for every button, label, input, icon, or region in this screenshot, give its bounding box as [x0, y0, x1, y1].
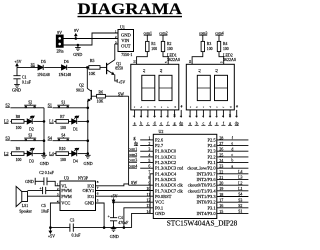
wire U2 pin21 net L3: [217, 176, 249, 180]
wire U2 pin27 net e: [217, 142, 249, 146]
IC U3 NY3P: [57, 176, 99, 211]
wire left matrix bus: [43, 108, 45, 156]
svg-text:L3: L3: [238, 176, 242, 180]
svg-text:GND: GND: [85, 201, 95, 206]
svg-text:GND: GND: [40, 161, 49, 166]
wire J1 pin2 to U1 GND: [63, 33, 118, 45]
svg-text:GND: GND: [12, 88, 21, 93]
svg-text:L1: L1: [238, 187, 242, 191]
wire bottom ground rail: [50, 227, 131, 229]
svg-text:PWM: PWM: [61, 188, 72, 193]
wire Q2 emitter down (right matrix bus): [87, 101, 89, 155]
resistor R10 100: [54, 147, 68, 162]
wire U2 pin16 net S2: [217, 204, 249, 208]
svg-text:6: 6: [97, 192, 99, 196]
svg-text:d: d: [209, 121, 211, 125]
svg-text:9013: 9013: [76, 88, 84, 92]
svg-text:d: d: [154, 121, 156, 125]
svg-text:f: f: [167, 107, 170, 108]
svg-text:L4: L4: [238, 170, 242, 174]
svg-text:U2: U2: [159, 129, 164, 134]
transistor Q2 9013: [76, 84, 96, 102]
IC U2 STC15W404AS: [146, 129, 223, 219]
svg-text:R6: R6: [99, 90, 104, 94]
ground left matrix bus: [40, 155, 49, 166]
svg-text:P2.1: P2.1: [207, 160, 215, 165]
switch S1: [57, 100, 69, 107]
wire U2 pin19 net L1: [217, 187, 249, 191]
svg-text:C5: C5: [41, 204, 46, 208]
svg-text:INT0/P3.2: INT0/P3.2: [196, 200, 215, 205]
svg-text:com3: com3: [199, 31, 208, 35]
resistor R1 100: [146, 35, 157, 51]
svg-text:PWM: PWM: [61, 194, 72, 199]
svg-text:C3: C3: [70, 218, 75, 222]
power flag 9V node: [74, 28, 79, 40]
svg-text:14: 14: [146, 209, 150, 214]
capacitor C2 0.1uF: [25, 171, 60, 186]
svg-text:8550: 8550: [115, 67, 123, 71]
svg-text:1: 1: [115, 30, 117, 34]
resistor R2 100: [161, 35, 172, 51]
node L4 net label: [49, 151, 55, 156]
svg-text:C2 0.1uF: C2 0.1uF: [39, 171, 54, 175]
svg-text:S1: S1: [31, 62, 35, 67]
wire S1 row: [53, 107, 88, 109]
svg-text:P2.4: P2.4: [207, 143, 216, 148]
ground at C4: [110, 228, 119, 239]
svg-text:10K: 10K: [97, 99, 104, 103]
resistor R5 10K: [89, 59, 100, 76]
wire U2 pin28 net f: [217, 136, 249, 140]
svg-text:1N4148: 1N4148: [37, 73, 50, 77]
svg-text:100: 100: [151, 47, 157, 51]
svg-text:2Pin: 2Pin: [57, 50, 64, 54]
svg-text:3622AS: 3622AS: [223, 57, 236, 62]
svg-text:L2: L2: [238, 181, 242, 185]
switch S4: [57, 133, 69, 140]
resistor R7 100: [54, 115, 68, 130]
svg-text:GND: GND: [73, 52, 82, 57]
svg-text:D1: D1: [73, 127, 78, 131]
ground below C1: [12, 84, 21, 92]
svg-text:R9: R9: [16, 147, 21, 151]
svg-text:L3: L3: [4, 119, 9, 124]
wire U1 OUT to Q1 collector: [114, 44, 116, 60]
wire U2 pin9 SW stub: [129, 184, 154, 186]
resistor R8 100: [10, 115, 24, 130]
svg-text:SW: SW: [131, 180, 137, 185]
svg-text:INT4/P3.0: INT4/P3.0: [196, 211, 216, 216]
svg-text:R4: R4: [223, 42, 228, 46]
svg-text:100: 100: [60, 126, 66, 130]
wire U2 pin23 net a: [217, 164, 249, 168]
7-seg display LED2 3622AS: [186, 52, 238, 126]
speaker LS1: [16, 186, 32, 213]
svg-text:DIAGRAMA: DIAGRAMA: [78, 1, 183, 18]
node S1 net label: [31, 62, 35, 67]
wire U3 IO2 to SW line: [96, 184, 129, 186]
display LED2 label: [223, 53, 236, 63]
ground at power input: [73, 44, 82, 57]
svg-text:12: 12: [146, 198, 150, 203]
svg-text:100: 100: [167, 47, 173, 51]
svg-text:+5V: +5V: [48, 233, 55, 238]
svg-text:com3: com3: [128, 158, 137, 163]
svg-text:com1: com1: [143, 31, 152, 35]
svg-text:L1: L1: [49, 119, 54, 124]
svg-text:P1.4/ADC4: P1.4/ADC4: [155, 171, 177, 176]
wire U2 pin20 net L2: [217, 181, 249, 185]
svg-text:g: g: [174, 121, 176, 125]
regulator U1 7550-1: [115, 24, 134, 57]
svg-text:U3: U3: [64, 176, 69, 181]
svg-text:P1.6/ADC6 clk: P1.6/ADC6 clk: [155, 183, 184, 188]
diode D5 1N4148: [37, 60, 50, 77]
svg-text:8: 8: [97, 180, 99, 184]
resistor R6 10K: [97, 90, 106, 103]
svg-text:C1: C1: [22, 75, 27, 79]
svg-text:7: 7: [97, 186, 99, 190]
node SW net label at U2: [131, 180, 137, 185]
svg-text:S2: S2: [28, 100, 32, 104]
svg-text:VCC: VCC: [155, 200, 164, 205]
svg-text:P2.3: P2.3: [207, 149, 216, 154]
svg-text:e: e: [231, 142, 233, 146]
svg-text:P3.1: P3.1: [207, 205, 215, 210]
svg-text:S2: S2: [238, 204, 242, 208]
svg-text:LS1: LS1: [22, 204, 29, 208]
svg-text:P0.0RST: P0.0RST: [155, 194, 172, 199]
svg-text:GND: GND: [155, 211, 165, 216]
title DIAGRAMA: [78, 1, 183, 18]
switch S3: [24, 133, 36, 140]
svg-text:R5: R5: [90, 59, 95, 63]
node com4 net stub at U2 pin6: [128, 163, 153, 168]
node com3 net label: [199, 31, 208, 35]
svg-text:dp: dp: [179, 121, 183, 125]
wire U2 pin15 net S1: [217, 210, 249, 214]
wire U2 pin22 net L4: [217, 170, 249, 174]
wire D5 to D6: [44, 66, 61, 68]
svg-text:dp: dp: [134, 141, 138, 146]
node com2 net stub at U2 pin4: [128, 152, 153, 157]
svg-text:7: 7: [148, 169, 150, 174]
svg-text:dp: dp: [235, 121, 239, 125]
node S4 net label: [48, 135, 53, 140]
wire U3 IO1 to U2 pin11: [96, 195, 154, 197]
node L2 net label: [4, 151, 9, 156]
svg-text:OKY1: OKY1: [82, 188, 94, 193]
wire U2 pin24 net b: [217, 159, 249, 163]
LED D1: [69, 116, 88, 131]
wire U3 OKY1 to U2 pin10: [96, 190, 154, 192]
svg-text:11: 11: [147, 192, 151, 197]
svg-text:10: 10: [146, 186, 150, 191]
switch S2: [24, 100, 36, 107]
svg-text:100: 100: [60, 158, 66, 162]
wire R6 to SW net: [105, 95, 128, 97]
node S3 net label: [5, 135, 9, 140]
power flag +5V at Q1 emitter: [117, 79, 125, 84]
wire U2 pin26 net d: [217, 147, 249, 151]
node S2 net label: [5, 102, 9, 107]
svg-text:ckout1/T1/P3.4: ckout1/T1/P3.4: [188, 188, 217, 193]
node com1 net label: [143, 31, 152, 35]
wire S3 row: [10, 140, 44, 142]
svg-text:INT1/P3.3: INT1/P3.3: [196, 194, 216, 199]
svg-text:com4: com4: [128, 163, 137, 168]
svg-text:5: 5: [97, 198, 99, 202]
svg-text:+: +: [39, 187, 41, 191]
power flag +5V at U2 VCC: [110, 193, 117, 203]
svg-text:P1.0/ADC0: P1.0/ADC0: [155, 149, 177, 154]
wire R5 to Q1 base: [100, 66, 107, 68]
svg-text:GND: GND: [110, 234, 119, 239]
svg-text:A1: A1: [197, 68, 201, 72]
wire speaker to U3 pin3: [28, 195, 61, 197]
svg-text:P1.5/ADC5: P1.5/ADC5: [155, 177, 177, 182]
LED D4: [69, 148, 88, 163]
svg-text:R3: R3: [207, 42, 212, 46]
svg-text:STC15W404AS_DIP28: STC15W404AS_DIP28: [167, 219, 238, 228]
svg-text:A1: A1: [142, 68, 146, 72]
svg-text:S3: S3: [28, 133, 32, 137]
svg-text:ckout0/T0/P3.5: ckout0/T0/P3.5: [188, 183, 217, 188]
node S1 matrix net label: [48, 102, 52, 107]
svg-text:R8: R8: [16, 115, 21, 119]
svg-text:VIN: VIN: [121, 38, 130, 43]
svg-text:7550-1: 7550-1: [121, 53, 132, 57]
wire U2 pin18 net S4: [217, 193, 249, 197]
svg-text:a: a: [231, 164, 233, 168]
svg-text:100: 100: [223, 47, 229, 51]
node com4 net label: [215, 31, 224, 35]
svg-text:P1.2/ADC2: P1.2/ADC2: [155, 160, 176, 165]
capacitor C4 47uF: [108, 202, 129, 228]
svg-text:C4: C4: [118, 216, 123, 220]
svg-text:S4: S4: [61, 133, 65, 137]
transistor Q1 8550: [107, 60, 123, 81]
svg-text:Speaker: Speaker: [19, 209, 32, 213]
svg-text:S3: S3: [238, 198, 242, 202]
capacitor C3 0.1uF: [70, 218, 82, 237]
svg-text:100: 100: [16, 126, 22, 130]
wire SW down to U2 pin9: [128, 96, 130, 185]
wire U3 VCC to +5V: [50, 203, 60, 228]
svg-text:P1.7/ADC7 clk: P1.7/ADC7 clk: [155, 188, 184, 193]
svg-text:com1: com1: [128, 146, 137, 151]
svg-text:9V: 9V: [74, 28, 79, 33]
wire S4 row: [53, 140, 88, 142]
svg-text:3622AS: 3622AS: [167, 57, 180, 62]
svg-text:SW: SW: [118, 91, 124, 96]
node com1 net stub at U2 pin3: [128, 146, 153, 151]
svg-text:9: 9: [148, 181, 150, 186]
connector J1 2Pin 9V: [56, 30, 63, 54]
svg-text:+5V: +5V: [118, 80, 125, 84]
capacitor C1 0.1uF: [13, 67, 31, 84]
svg-text:10K: 10K: [89, 72, 96, 76]
svg-text:100: 100: [207, 47, 213, 51]
wire U2 pin25 net c: [217, 153, 249, 157]
svg-text:U1: U1: [120, 24, 125, 29]
svg-text:com2: com2: [159, 31, 168, 35]
7-seg display LED1 3622AS: [131, 52, 183, 126]
svg-text:D2: D2: [29, 127, 34, 131]
svg-text:13: 13: [146, 203, 150, 208]
svg-text:INT2/P3.6: INT2/P3.6: [196, 177, 216, 182]
resistor R4 100: [217, 35, 228, 51]
svg-text:A2: A2: [159, 68, 163, 72]
wire U2 pin13 down to rail: [123, 208, 153, 229]
wire S2 row: [10, 107, 44, 109]
svg-text:b: b: [231, 159, 233, 163]
svg-text:f: f: [222, 107, 225, 108]
wire D6 to R5: [68, 66, 89, 68]
svg-text:1N4148: 1N4148: [59, 73, 72, 77]
wire U2 pin12 VCC to +5V: [114, 201, 154, 203]
svg-text:OUT: OUT: [121, 44, 131, 49]
wire U2 pin17 net S3: [217, 198, 249, 202]
svg-text:L2: L2: [4, 151, 9, 156]
svg-text:GND: GND: [25, 179, 34, 184]
power flag +5V bottom: [48, 227, 55, 239]
svg-text:P1.3/ADC3 rxd: P1.3/ADC3 rxd: [155, 166, 184, 171]
svg-text:com4: com4: [215, 31, 224, 35]
svg-text:P2.5: P2.5: [207, 137, 216, 142]
node L3 net label: [4, 119, 9, 124]
svg-text:R10: R10: [59, 147, 65, 151]
svg-text:INT3/P3.7: INT3/P3.7: [196, 171, 216, 176]
svg-text:S1: S1: [48, 102, 52, 107]
svg-text:Q1: Q1: [116, 62, 121, 66]
svg-text:R2: R2: [167, 42, 172, 46]
svg-text:IO1: IO1: [87, 194, 94, 199]
display LED1 label: [167, 53, 180, 63]
wire U2 pin7 to pin14: [150, 174, 153, 214]
svg-text:S3: S3: [5, 135, 9, 140]
resistor R9 100: [10, 147, 24, 162]
svg-text:b: b: [196, 121, 198, 125]
svg-text:D3: D3: [29, 160, 34, 164]
wire J1 pin1 to U1 VIN: [63, 38, 118, 40]
node L1 net label: [49, 119, 54, 124]
node com3 net stub at U2 pin5: [128, 158, 153, 163]
svg-text:2: 2: [115, 35, 117, 39]
svg-text:R7: R7: [60, 115, 65, 119]
ground right matrix bus: [84, 107, 93, 166]
wire U3 GND to rail: [96, 203, 105, 228]
svg-text:b: b: [140, 121, 142, 125]
node dp net stub at U2 pin2: [134, 141, 153, 146]
svg-text:NY3P: NY3P: [78, 176, 89, 181]
svg-text:S4: S4: [238, 193, 242, 197]
svg-text:VCC: VCC: [61, 201, 70, 206]
svg-text:D5: D5: [41, 60, 46, 64]
svg-text:+: +: [108, 214, 110, 218]
wire U2 pin14 GND to rail: [132, 213, 154, 227]
svg-text:9V: 9V: [57, 30, 62, 35]
svg-text:D6: D6: [64, 60, 69, 64]
svg-text:10uF: 10uF: [41, 209, 50, 213]
svg-text:+5V: +5V: [14, 59, 21, 64]
svg-text:S2: S2: [5, 102, 9, 107]
LED D3: [24, 148, 44, 163]
power flag +5V (left): [14, 59, 21, 67]
svg-text:Q2: Q2: [79, 84, 84, 88]
svg-text:ckout_low/P2.0: ckout_low/P2.0: [187, 166, 216, 171]
svg-text:d: d: [231, 147, 233, 151]
svg-text:com2: com2: [128, 152, 137, 157]
svg-text:P0.1: P0.1: [155, 205, 163, 210]
wire D6/R5 node down to Q2: [86, 67, 88, 89]
svg-text:D4: D4: [73, 160, 78, 164]
svg-text:R1: R1: [151, 42, 156, 46]
svg-text:P1.1/ADC1: P1.1/ADC1: [155, 154, 176, 159]
resistor R3 100: [201, 35, 212, 51]
svg-text:P2.6: P2.6: [155, 137, 164, 142]
svg-text:100: 100: [16, 158, 22, 162]
svg-text:GND: GND: [84, 161, 93, 166]
diode D6 1N4148: [59, 60, 72, 77]
wire +5V node to D5: [17, 66, 38, 68]
svg-text:P2.7: P2.7: [155, 143, 164, 148]
svg-text:A2: A2: [215, 68, 219, 72]
svg-text:P2.2: P2.2: [207, 154, 215, 159]
node SW net label: [118, 91, 124, 96]
svg-text:S1: S1: [61, 100, 65, 104]
capacitor C5 10uF: [28, 187, 61, 214]
svg-text:0.1uF: 0.1uF: [72, 234, 82, 238]
svg-text:0.1uF: 0.1uF: [22, 81, 32, 85]
node g net stub at U2 pin1: [134, 135, 154, 140]
IC U2 part number: [167, 219, 238, 228]
node com2 net label: [159, 31, 168, 35]
LED D2: [24, 116, 44, 131]
svg-text:c: c: [231, 153, 233, 157]
svg-text:g: g: [229, 121, 231, 125]
svg-text:GND: GND: [121, 32, 132, 37]
svg-text:g: g: [134, 135, 136, 140]
svg-text:8: 8: [148, 175, 150, 180]
svg-text:S1: S1: [238, 210, 242, 214]
